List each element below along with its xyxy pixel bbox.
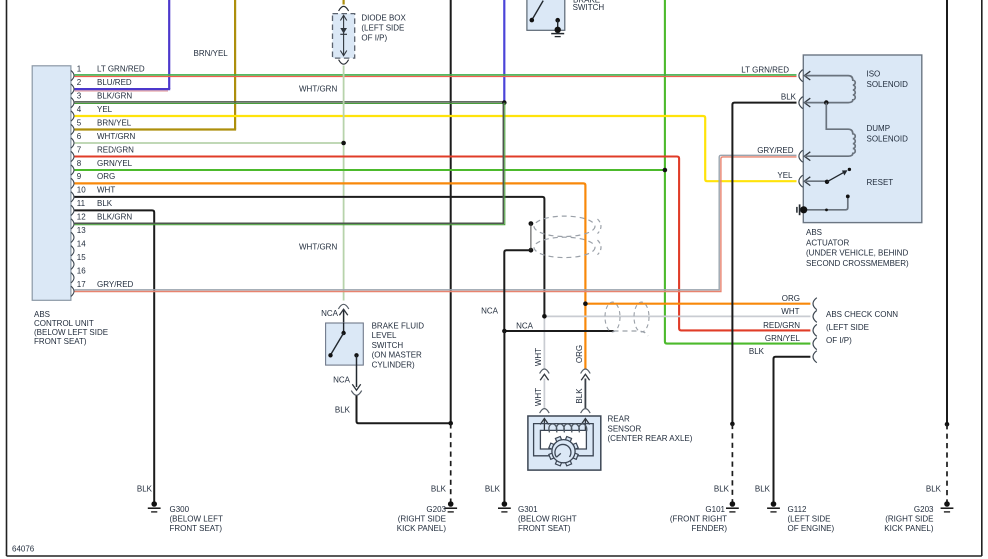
splice dot G203 (448, 421, 453, 426)
svg-text:10: 10 (77, 186, 86, 195)
ground G112 (771, 501, 777, 507)
wire 12 BLK/GRN pin12 right and up to junction (75, 103, 504, 224)
wire 9 ORG pin9 right, down to splice (75, 183, 586, 368)
wire GRN/YEL vertical from top through junction down to ABS check conn (665, 0, 811, 344)
pin 2 arc (71, 84, 74, 94)
actuator entry arc BLK (799, 97, 803, 109)
svg-text:BLK: BLK (714, 485, 730, 494)
splice dot WHT (542, 314, 547, 319)
svg-text:BLK: BLK (137, 485, 153, 494)
pin 1 arc (71, 70, 74, 80)
svg-text:CYLINDER): CYLINDER) (372, 361, 415, 370)
svg-text:BLK: BLK (749, 347, 765, 356)
ground G101 (730, 501, 736, 507)
actuator entry arc GRY/RED (799, 150, 803, 162)
svg-text:RED/GRN: RED/GRN (763, 321, 800, 330)
wire 3 BLK/GRN pin3 to junction (75, 101, 505, 103)
diode internal wire with arrows (343, 16, 345, 56)
svg-text:16: 16 (77, 267, 86, 276)
svg-text:YEL: YEL (97, 105, 113, 114)
switch case ground (555, 27, 561, 33)
rear sensor rotation arc (555, 444, 571, 457)
svg-text:LT GRN/RED: LT GRN/RED (97, 64, 145, 73)
svg-text:ORG: ORG (575, 345, 584, 363)
svg-text:GRY/RED: GRY/RED (757, 146, 794, 155)
svg-text:G112: G112 (788, 505, 808, 514)
svg-text:G203: G203 (426, 505, 446, 514)
dashed wire to G203 (450, 423, 452, 501)
wire BLK check conn to G112 (774, 357, 811, 502)
wire BLK actuator to G101 (732, 103, 796, 424)
svg-text:(BELOW LEFT: (BELOW LEFT (170, 515, 223, 524)
svg-text:G300: G300 (170, 505, 190, 514)
svg-text:(FRONT RIGHT: (FRONT RIGHT (670, 515, 727, 524)
junction dot G101 splice (730, 422, 735, 427)
svg-text:(LEFT SIDE: (LEFT SIDE (788, 515, 831, 524)
shield drain wire to G301 net (504, 250, 531, 331)
stop light switch box (527, 0, 565, 30)
svg-text:SOLENOID: SOLENOID (867, 80, 909, 89)
svg-text:G301: G301 (518, 505, 538, 514)
wire 6 WHT/GRN pin6 to junction at diode box vertical (75, 142, 344, 144)
svg-text:G203: G203 (914, 505, 934, 514)
svg-text:FENDER): FENDER) (691, 524, 727, 533)
pin 15 arc (71, 259, 74, 269)
svg-text:FRONT SEAT): FRONT SEAT) (518, 524, 571, 533)
svg-text:BLK: BLK (926, 485, 942, 494)
check conn arc ORG (813, 298, 817, 310)
svg-text:NCA: NCA (516, 322, 534, 331)
inline connector WHT (540, 369, 550, 374)
svg-text:BLK: BLK (97, 199, 113, 208)
svg-text:8: 8 (77, 159, 82, 168)
pin 7 arc (71, 151, 74, 161)
svg-text:SOLENOID: SOLENOID (867, 134, 909, 143)
wire BRN/YEL vertical from top to pin 5 (234, 0, 236, 130)
rear sensor tone wheel (571, 453, 578, 460)
junction dot BLU/RED + BLK/GRN (502, 100, 507, 105)
wire 5 BRN/YEL pin5 to vertical (75, 128, 237, 130)
RESET switch blade with arrow (827, 172, 845, 182)
svg-text:(CENTER REAR AXLE): (CENTER REAR AXLE) (608, 434, 693, 443)
svg-text:ACTUATOR: ACTUATOR (806, 238, 849, 247)
wire WHT/GRN vertical from diode box down to NCA (343, 66, 345, 301)
diode symbol D1 (340, 28, 347, 34)
wire ORG splice to ABS check conn (585, 303, 810, 305)
svg-text:ABS CHECK CONN: ABS CHECK CONN (826, 310, 898, 319)
switch blade and contacts (343, 323, 345, 333)
svg-text:WHT: WHT (534, 348, 543, 366)
wire 2 BLU/RED pin2 to vertical (75, 90, 169, 92)
svg-text:(RIGHT SIDE: (RIGHT SIDE (885, 515, 933, 524)
svg-text:BLK: BLK (781, 93, 797, 102)
svg-text:NCA: NCA (481, 307, 499, 316)
ground G301 (502, 501, 508, 507)
wire BLK brake switch to G203 splice (357, 396, 451, 424)
svg-text:GRN/YEL: GRN/YEL (97, 159, 133, 168)
svg-text:BLK/GRN: BLK/GRN (97, 91, 132, 100)
ground G300 (151, 501, 157, 507)
svg-text:BLK: BLK (755, 485, 771, 494)
ABS control unit connector box (32, 66, 71, 300)
check conn arc RED/GRN (813, 324, 817, 336)
wire 7 RED/GRN pin7 right, down, to ABS check conn (75, 157, 811, 331)
twisted pair marker vertical ellipses (605, 302, 620, 332)
svg-text:SWITCH: SWITCH (573, 3, 605, 12)
pin 14 arc (71, 246, 74, 256)
wire 4 YEL pin4 right, down, to ABS actuator (75, 116, 797, 181)
pin 11 arc (71, 205, 74, 215)
wire BLK lower to rear sensor (584, 379, 586, 409)
svg-text:SENSOR: SENSOR (608, 424, 642, 433)
wire 10 WHT pin10 right, down to splice (75, 197, 545, 316)
pin 17 arc (71, 286, 74, 296)
NCA connector above brake fluid switch (338, 304, 348, 309)
svg-text:NCA: NCA (333, 376, 351, 385)
svg-text:WHT: WHT (534, 388, 543, 406)
wire BLU/RED vertical from top to pin 2 (168, 0, 170, 89)
diode box connector arc top (339, 6, 349, 11)
wire WHT splice down to inline connector (543, 316, 545, 368)
actuator entry arc YEL (799, 175, 803, 187)
svg-text:ISO: ISO (867, 70, 881, 79)
actuator case ground bolt (800, 206, 807, 213)
svg-text:RED/GRN: RED/GRN (97, 145, 134, 154)
twisted pair marker ellipses (534, 216, 595, 236)
svg-text:(UNDER VEHICLE, BEHIND: (UNDER VEHICLE, BEHIND (806, 249, 908, 258)
svg-text:NCA: NCA (321, 309, 339, 318)
ground G203 (448, 501, 454, 507)
pin 8 arc (71, 165, 74, 175)
svg-text:BLK: BLK (485, 485, 501, 494)
svg-text:CONTROL UNIT: CONTROL UNIT (34, 319, 94, 328)
dashed wire to G101 (731, 424, 733, 502)
wire WHT lower to rear sensor (543, 379, 545, 409)
brake fluid level switch box (326, 323, 364, 365)
svg-text:ABS: ABS (806, 228, 822, 237)
svg-text:LT GRN/RED: LT GRN/RED (741, 66, 789, 75)
DUMP solenoid coil L2 (804, 103, 855, 157)
svg-text:(RIGHT SIDE: (RIGHT SIDE (398, 515, 446, 524)
splice dot ORG (583, 301, 588, 306)
svg-text:12: 12 (77, 213, 86, 222)
svg-text:7: 7 (77, 145, 82, 154)
svg-text:(BELOW LEFT SIDE: (BELOW LEFT SIDE (34, 328, 108, 337)
svg-text:OF I/P): OF I/P) (826, 336, 852, 345)
svg-text:ABS: ABS (34, 310, 50, 319)
ABS actuator box (803, 55, 922, 223)
inline connector ORG/BLK (581, 369, 591, 374)
svg-text:KICK PANEL): KICK PANEL) (884, 524, 934, 533)
actuator entry arc LT GRN/RED (799, 70, 803, 82)
svg-text:4: 4 (77, 105, 82, 114)
svg-text:G101: G101 (705, 505, 725, 514)
svg-text:1: 1 (77, 64, 82, 73)
junction dot wire6/vertical (341, 141, 346, 146)
wire 1 LT GRN/RED pin1 to ABS actuator (75, 74, 797, 76)
border frame (6, 0, 8, 556)
rear sensor yoke (540, 430, 586, 449)
svg-text:5: 5 (77, 118, 82, 127)
svg-text:6: 6 (77, 132, 82, 141)
svg-text:GRY/RED: GRY/RED (97, 280, 134, 289)
wire BLK vertical from top to G203 junction (450, 0, 452, 423)
svg-text:BRN/YEL: BRN/YEL (194, 49, 229, 58)
diode box dashed enclosure (333, 14, 355, 59)
check conn arc GRN/YEL (813, 338, 817, 350)
splice dot G301 (502, 329, 507, 334)
pin 12 arc (71, 219, 74, 229)
svg-text:(BELOW RIGHT: (BELOW RIGHT (518, 515, 577, 524)
svg-text:(ON MASTER: (ON MASTER (372, 351, 422, 360)
wire BRN/YEL stub above diode box (343, 0, 345, 5)
svg-text:REAR: REAR (608, 415, 630, 424)
svg-text:DUMP: DUMP (867, 124, 891, 133)
svg-text:BRAKE FLUID: BRAKE FLUID (372, 321, 425, 330)
rear sensor pickup coil (549, 424, 587, 432)
svg-text:OF ENGINE): OF ENGINE) (788, 524, 835, 533)
svg-text:WHT: WHT (781, 307, 799, 316)
RESET switch wire from YEL entry (804, 180, 826, 182)
svg-text:WHT/GRN: WHT/GRN (97, 132, 135, 141)
svg-text:15: 15 (77, 253, 86, 262)
svg-text:BLU/RED: BLU/RED (97, 78, 132, 87)
shield drain dots (529, 221, 534, 226)
junction dot GRN/YEL (663, 168, 668, 173)
pin 6 arc (71, 138, 74, 148)
svg-text:RESET: RESET (867, 178, 894, 187)
pin 10 arc (71, 192, 74, 202)
svg-text:YEL: YEL (777, 171, 793, 180)
svg-text:BLK: BLK (431, 485, 447, 494)
svg-text:WHT/GRN: WHT/GRN (299, 85, 337, 94)
check conn arc WHT (813, 310, 817, 322)
svg-text:SWITCH: SWITCH (372, 341, 404, 350)
svg-text:BRN/YEL: BRN/YEL (97, 118, 132, 127)
svg-text:14: 14 (77, 240, 86, 249)
rear sensor entry arrows (543, 419, 545, 432)
RESET lower contact wire (804, 196, 848, 209)
svg-text:BLK/GRN: BLK/GRN (97, 213, 132, 222)
NCA stub wire (504, 330, 613, 332)
wire from switch lower contact (356, 355, 358, 387)
svg-text:SECOND CROSSMEMBER): SECOND CROSSMEMBER) (806, 259, 909, 268)
pin 3 arc (71, 97, 74, 107)
svg-text:DIODE BOX: DIODE BOX (361, 13, 406, 22)
switch blade (532, 1, 543, 21)
check conn arc BLK (813, 351, 817, 363)
svg-text:KICK PANEL): KICK PANEL) (397, 524, 447, 533)
rear sensor box (528, 416, 601, 470)
wire WHT splice to ABS check conn (544, 315, 810, 317)
svg-text:OF I/P): OF I/P) (361, 33, 387, 42)
wire BLK vertical from top right to G203 right junction (946, 0, 948, 424)
svg-text:GRN/YEL: GRN/YEL (765, 334, 801, 343)
pin 16 arc (71, 273, 74, 283)
wire 8 GRN/YEL pin8 to junction with vertical (75, 169, 665, 171)
pin 4 arc (71, 111, 74, 121)
svg-text:WHT/GRN: WHT/GRN (299, 243, 337, 252)
wire BLU/RED vertical from stop light switch to junction with BLK/GRN (503, 0, 505, 103)
svg-text:17: 17 (77, 280, 86, 289)
svg-text:FRONT SEAT): FRONT SEAT) (34, 337, 87, 346)
junction dot on BLK return (824, 100, 829, 105)
ground G203 right (944, 501, 950, 507)
pin 9 arc (71, 178, 74, 188)
wire 11 BLK pin11 right then down to G300 (75, 210, 155, 501)
pin 13 arc (71, 232, 74, 242)
dashed wire to G203 right (945, 422, 950, 427)
svg-text:64076: 64076 (12, 545, 35, 554)
svg-text:BLK: BLK (335, 406, 351, 415)
wire BLK down to G301 (503, 331, 505, 502)
svg-text:11: 11 (77, 199, 86, 208)
svg-text:2: 2 (77, 78, 82, 87)
svg-text:WHT: WHT (97, 186, 115, 195)
svg-text:3: 3 (77, 91, 82, 100)
svg-text:LEVEL: LEVEL (372, 331, 397, 340)
svg-text:9: 9 (77, 172, 82, 181)
rear sensor connector arcs (540, 409, 550, 414)
svg-text:ORG: ORG (97, 172, 115, 181)
ISO solenoid coil L1 (804, 76, 855, 103)
switch fixed contact (555, 18, 560, 23)
wire 17 GRY/RED pin17 right, up, to ABS actuator (75, 155, 797, 289)
diode box connector arc bottom (339, 60, 349, 65)
svg-text:BLK: BLK (575, 388, 584, 404)
pin 5 arc (71, 124, 74, 134)
svg-text:ORG: ORG (782, 294, 800, 303)
svg-text:13: 13 (77, 226, 86, 235)
svg-text:(LEFT SIDE: (LEFT SIDE (826, 323, 869, 332)
svg-text:FRONT SEAT): FRONT SEAT) (170, 524, 223, 533)
svg-text:(LEFT SIDE: (LEFT SIDE (361, 23, 404, 32)
